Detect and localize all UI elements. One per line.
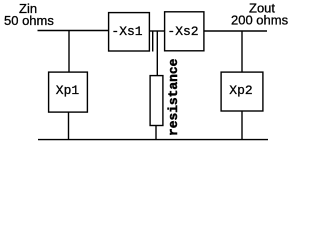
wire resistor bottom: [155, 126, 157, 140]
svg-text:50 ohms: 50 ohms: [4, 13, 54, 28]
wire output right: [205, 30, 268, 32]
wire input left: [38, 30, 109, 32]
wire Xp2 bottom: [241, 111, 243, 140]
wire between Xs1 and Xs2: [150, 30, 164, 32]
resistor box R: [150, 76, 163, 126]
inductor box Xp2: [221, 72, 263, 111]
wire stub at junction: [152, 31, 154, 52]
svg-text:resistance: resistance: [166, 58, 181, 136]
svg-text:Xp1: Xp1: [56, 83, 80, 98]
wire drop to resistor top: [156, 31, 158, 76]
svg-text:-Xs2: -Xs2: [167, 24, 198, 39]
wire Xp1 bottom: [68, 112, 70, 140]
wire ground bus bottom: [38, 139, 268, 141]
wire drop to Xp1 top: [68, 31, 70, 72]
capacitor box -Xs1: [109, 13, 150, 51]
svg-text:-Xs1: -Xs1: [111, 24, 142, 39]
svg-text:Xp2: Xp2: [229, 83, 252, 98]
svg-text:200 ohms: 200 ohms: [231, 13, 289, 28]
capacitor box -Xs2: [165, 12, 204, 51]
wire drop to Xp2 top: [241, 31, 243, 72]
inductor box Xp1: [49, 72, 88, 112]
